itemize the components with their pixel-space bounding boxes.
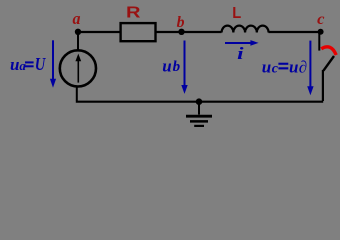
svg-text:R: R [126, 4, 141, 21]
svg-text:U: U [35, 54, 46, 74]
svg-text:a: a [73, 9, 81, 28]
svg-text:c: c [317, 11, 324, 28]
svg-text:L: L [232, 5, 241, 22]
svg-text:c: c [272, 61, 279, 76]
svg-text:b: b [177, 14, 185, 31]
svg-text:u: u [289, 57, 298, 76]
svg-text:u: u [162, 57, 171, 76]
svg-text:b: b [173, 59, 181, 75]
svg-text:u: u [10, 55, 19, 74]
svg-text:u: u [262, 57, 271, 76]
svg-text:i: i [237, 44, 244, 63]
svg-text:∂: ∂ [299, 57, 307, 76]
